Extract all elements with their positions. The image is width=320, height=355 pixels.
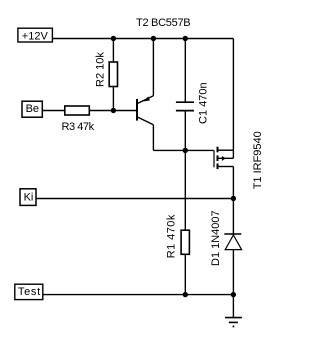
wire D1 top lead <box>232 199 234 236</box>
wire T2 collector vertical <box>152 125 154 151</box>
wire T1 source down to Ki junction <box>232 167 234 199</box>
wire T1 source line <box>218 166 233 168</box>
node Ki terminal box <box>20 189 36 206</box>
wire C1 top lead <box>184 39 186 103</box>
wire ground lead <box>232 295 234 318</box>
wire Ki line <box>36 198 234 200</box>
transistor T2 base bar <box>136 99 138 121</box>
svg-text:Ki: Ki <box>24 192 34 204</box>
svg-text:R3 47k: R3 47k <box>62 121 95 133</box>
mosfet T1 gate bar <box>213 150 215 167</box>
wire C1 bottom lead <box>184 111 186 151</box>
node R2 / R3 / T2 base <box>111 108 116 113</box>
svg-text:C1 470n: C1 470n <box>198 82 210 124</box>
wire gate line <box>153 149 213 151</box>
wire R1 bottom lead <box>184 254 186 294</box>
node Test / D1 / ground <box>231 292 236 297</box>
resistor R2 body <box>109 62 117 87</box>
node top rail / C1 <box>183 36 188 41</box>
wire T1 drain line <box>218 149 233 151</box>
transistor T2 emitter arrow <box>143 97 150 102</box>
wire T1 body line <box>218 157 233 159</box>
node top rail / T2 emitter <box>151 36 156 41</box>
capacitor C1 plates <box>176 102 194 110</box>
wire Test line <box>43 294 234 296</box>
node +12V terminal box <box>18 28 53 42</box>
resistor R1 body <box>181 230 189 254</box>
svg-text:T2 BC557B: T2 BC557B <box>136 17 190 29</box>
wire top rail +12V <box>53 38 234 40</box>
wire R1 top lead <box>184 150 186 230</box>
wire T2 collector diagonal <box>138 117 154 124</box>
wire Be to R3 <box>42 110 65 112</box>
node C1 / gate line / R1 <box>183 148 188 153</box>
svg-text:R1 470k: R1 470k <box>166 214 178 258</box>
svg-text:R2 10k: R2 10k <box>95 52 107 87</box>
wire T2 emitter vertical <box>152 39 154 96</box>
diode D1 triangle <box>225 235 241 250</box>
svg-text:Test: Test <box>18 286 41 298</box>
wire T2 emitter diagonal <box>138 96 154 104</box>
node Be terminal box <box>22 101 42 117</box>
ground <box>225 318 242 323</box>
diode D1 cathode bar <box>224 233 241 235</box>
wire D1 bottom lead <box>232 250 234 295</box>
wire R3 to base junction and T2 base <box>89 110 136 112</box>
node Ki / right rail <box>231 196 236 201</box>
wire R2 top lead <box>112 39 114 63</box>
node Test terminal box <box>15 284 43 299</box>
wire R2 bottom lead <box>112 87 114 111</box>
svg-text:T1 IRF9540: T1 IRF9540 <box>252 131 264 189</box>
node Test / R1 <box>183 292 188 297</box>
svg-text:D1 1N4007: D1 1N4007 <box>210 210 222 266</box>
svg-text:+12V: +12V <box>22 31 49 43</box>
svg-text:Be: Be <box>26 103 39 115</box>
mosfet T1 channel bars <box>217 147 219 169</box>
mosfet T1 body arrow <box>222 156 226 161</box>
wire right rail to T1 drain/body <box>232 39 234 159</box>
node top rail / R2 <box>111 36 116 41</box>
resistor R3 body <box>65 106 90 115</box>
